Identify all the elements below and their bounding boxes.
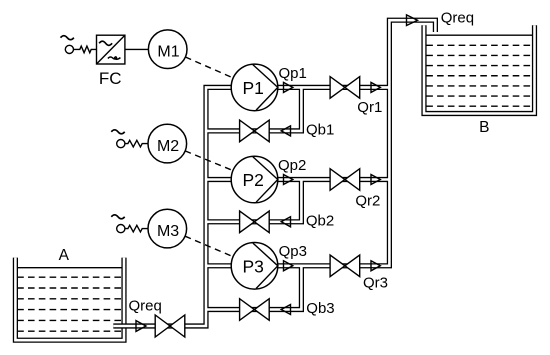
svg-text:Qr1: Qr1 [357,99,382,116]
valve Qr1 discharge valve [330,77,360,99]
flow arrow Qb2 [281,217,290,227]
pipes: inner white pass [113,20,435,326]
svg-text:Qr2: Qr2 [355,193,380,210]
valve Qr2 discharge valve [330,169,360,191]
pipes: outer black pass [113,20,435,326]
coupling M1-P1 (dashed shaft) [185,57,233,78]
pipe: bypass 2 (outer) [206,180,301,222]
AC supply 2 cable [125,140,148,147]
frequency converter FC box [97,35,125,64]
valve Qr3 discharge valve [330,255,360,277]
pipe: P2 row (outer) [206,177,389,182]
svg-text:Qreq: Qreq [129,298,162,315]
pipe: tank A feed, suction manifold and P1 row (outer) [113,87,389,326]
AC supply 1 tilde [61,36,74,40]
coupling M3-P3 (dashed shaft) [185,236,233,257]
svg-text:P3: P3 [242,256,263,276]
tank A water (dashed levels) [17,277,122,331]
pump P2 [231,156,278,203]
tank B walls [424,25,535,113]
svg-text:P2: P2 [242,170,263,190]
flow arrow Qb3 [281,305,290,315]
motor M1 [148,30,187,69]
AC supply 3 terminal [117,225,125,233]
flow arrow Qb1 [281,126,290,136]
flow arrow Qr1 [371,82,380,92]
AC supply 2 tilde [111,130,124,134]
svg-text:Qr3: Qr3 [363,275,388,292]
pipe: P2 row (inner) [206,178,389,181]
svg-text:Qb1: Qb1 [306,121,334,138]
svg-text:M3: M3 [157,223,179,240]
svg-text:Qp2: Qp2 [278,157,306,174]
AC supply 3 tilde [111,215,124,219]
svg-text:FC: FC [99,69,122,88]
tank B water surface [426,34,532,36]
flow arrow Qp3 [284,261,293,271]
wire FC to M1 [125,48,148,50]
FC input AC tilde [99,41,112,45]
motor M3 [148,209,187,248]
flow arrow Qreq into tank B [407,15,418,26]
tank A water surface [17,267,122,269]
pipe: tank A feed, suction manifold and P1 row (inner) [113,87,389,326]
tank A walls [15,258,124,341]
pipe: bypass 1 (inner) [206,87,301,130]
svg-text:Qp1: Qp1 [279,65,307,82]
AC supply 1 terminal [65,45,73,53]
svg-text:M1: M1 [157,43,179,60]
pump P1 [231,64,278,111]
pipe: P3 row, discharge manifold and inlet stub to tank B (outer) [206,20,435,266]
AC supply 3 cable [125,225,148,232]
valve Qb1 bypass valve [240,120,270,142]
svg-text:Qp3: Qp3 [279,243,307,260]
flow arrow Qp2 [284,175,293,185]
svg-text:B: B [479,119,489,136]
flow arrow Qreq into manifold [136,321,146,332]
pipe: P3 row, discharge manifold and inlet stub to tank B (inner) [206,20,435,266]
svg-text:Qreq: Qreq [441,9,474,26]
pipe: bypass 1 (outer) [206,87,301,130]
svg-text:A: A [59,247,70,264]
pipe: bypass 3 (outer) [206,266,301,310]
AC supply 2 terminal [117,140,125,148]
FC diagonal [97,35,125,64]
flow arrow Qp1 [284,82,293,92]
svg-text:Qb3: Qb3 [306,300,334,317]
AC supply 1 cable [74,46,97,53]
tank B water (dashed levels) [426,45,532,106]
valve Qb2 bypass valve [240,211,270,233]
flow arrow Qr2 [371,175,380,185]
pump P3 [231,242,278,289]
svg-text:Qb2: Qb2 [306,213,334,230]
valve inlet valve (Qreq) [155,315,185,337]
pipe: bypass 2 (inner) [206,180,301,222]
FC output variable-frequency squiggle [108,57,120,59]
coupling M2-P2 (dashed shaft) [185,151,233,171]
svg-text:M2: M2 [157,138,179,155]
svg-text:P1: P1 [242,78,263,98]
valve Qb3 bypass valve [240,299,270,321]
motor M2 [148,124,187,163]
pipe: bypass 3 (inner) [206,266,301,310]
flow arrow Qr3 [371,261,380,271]
